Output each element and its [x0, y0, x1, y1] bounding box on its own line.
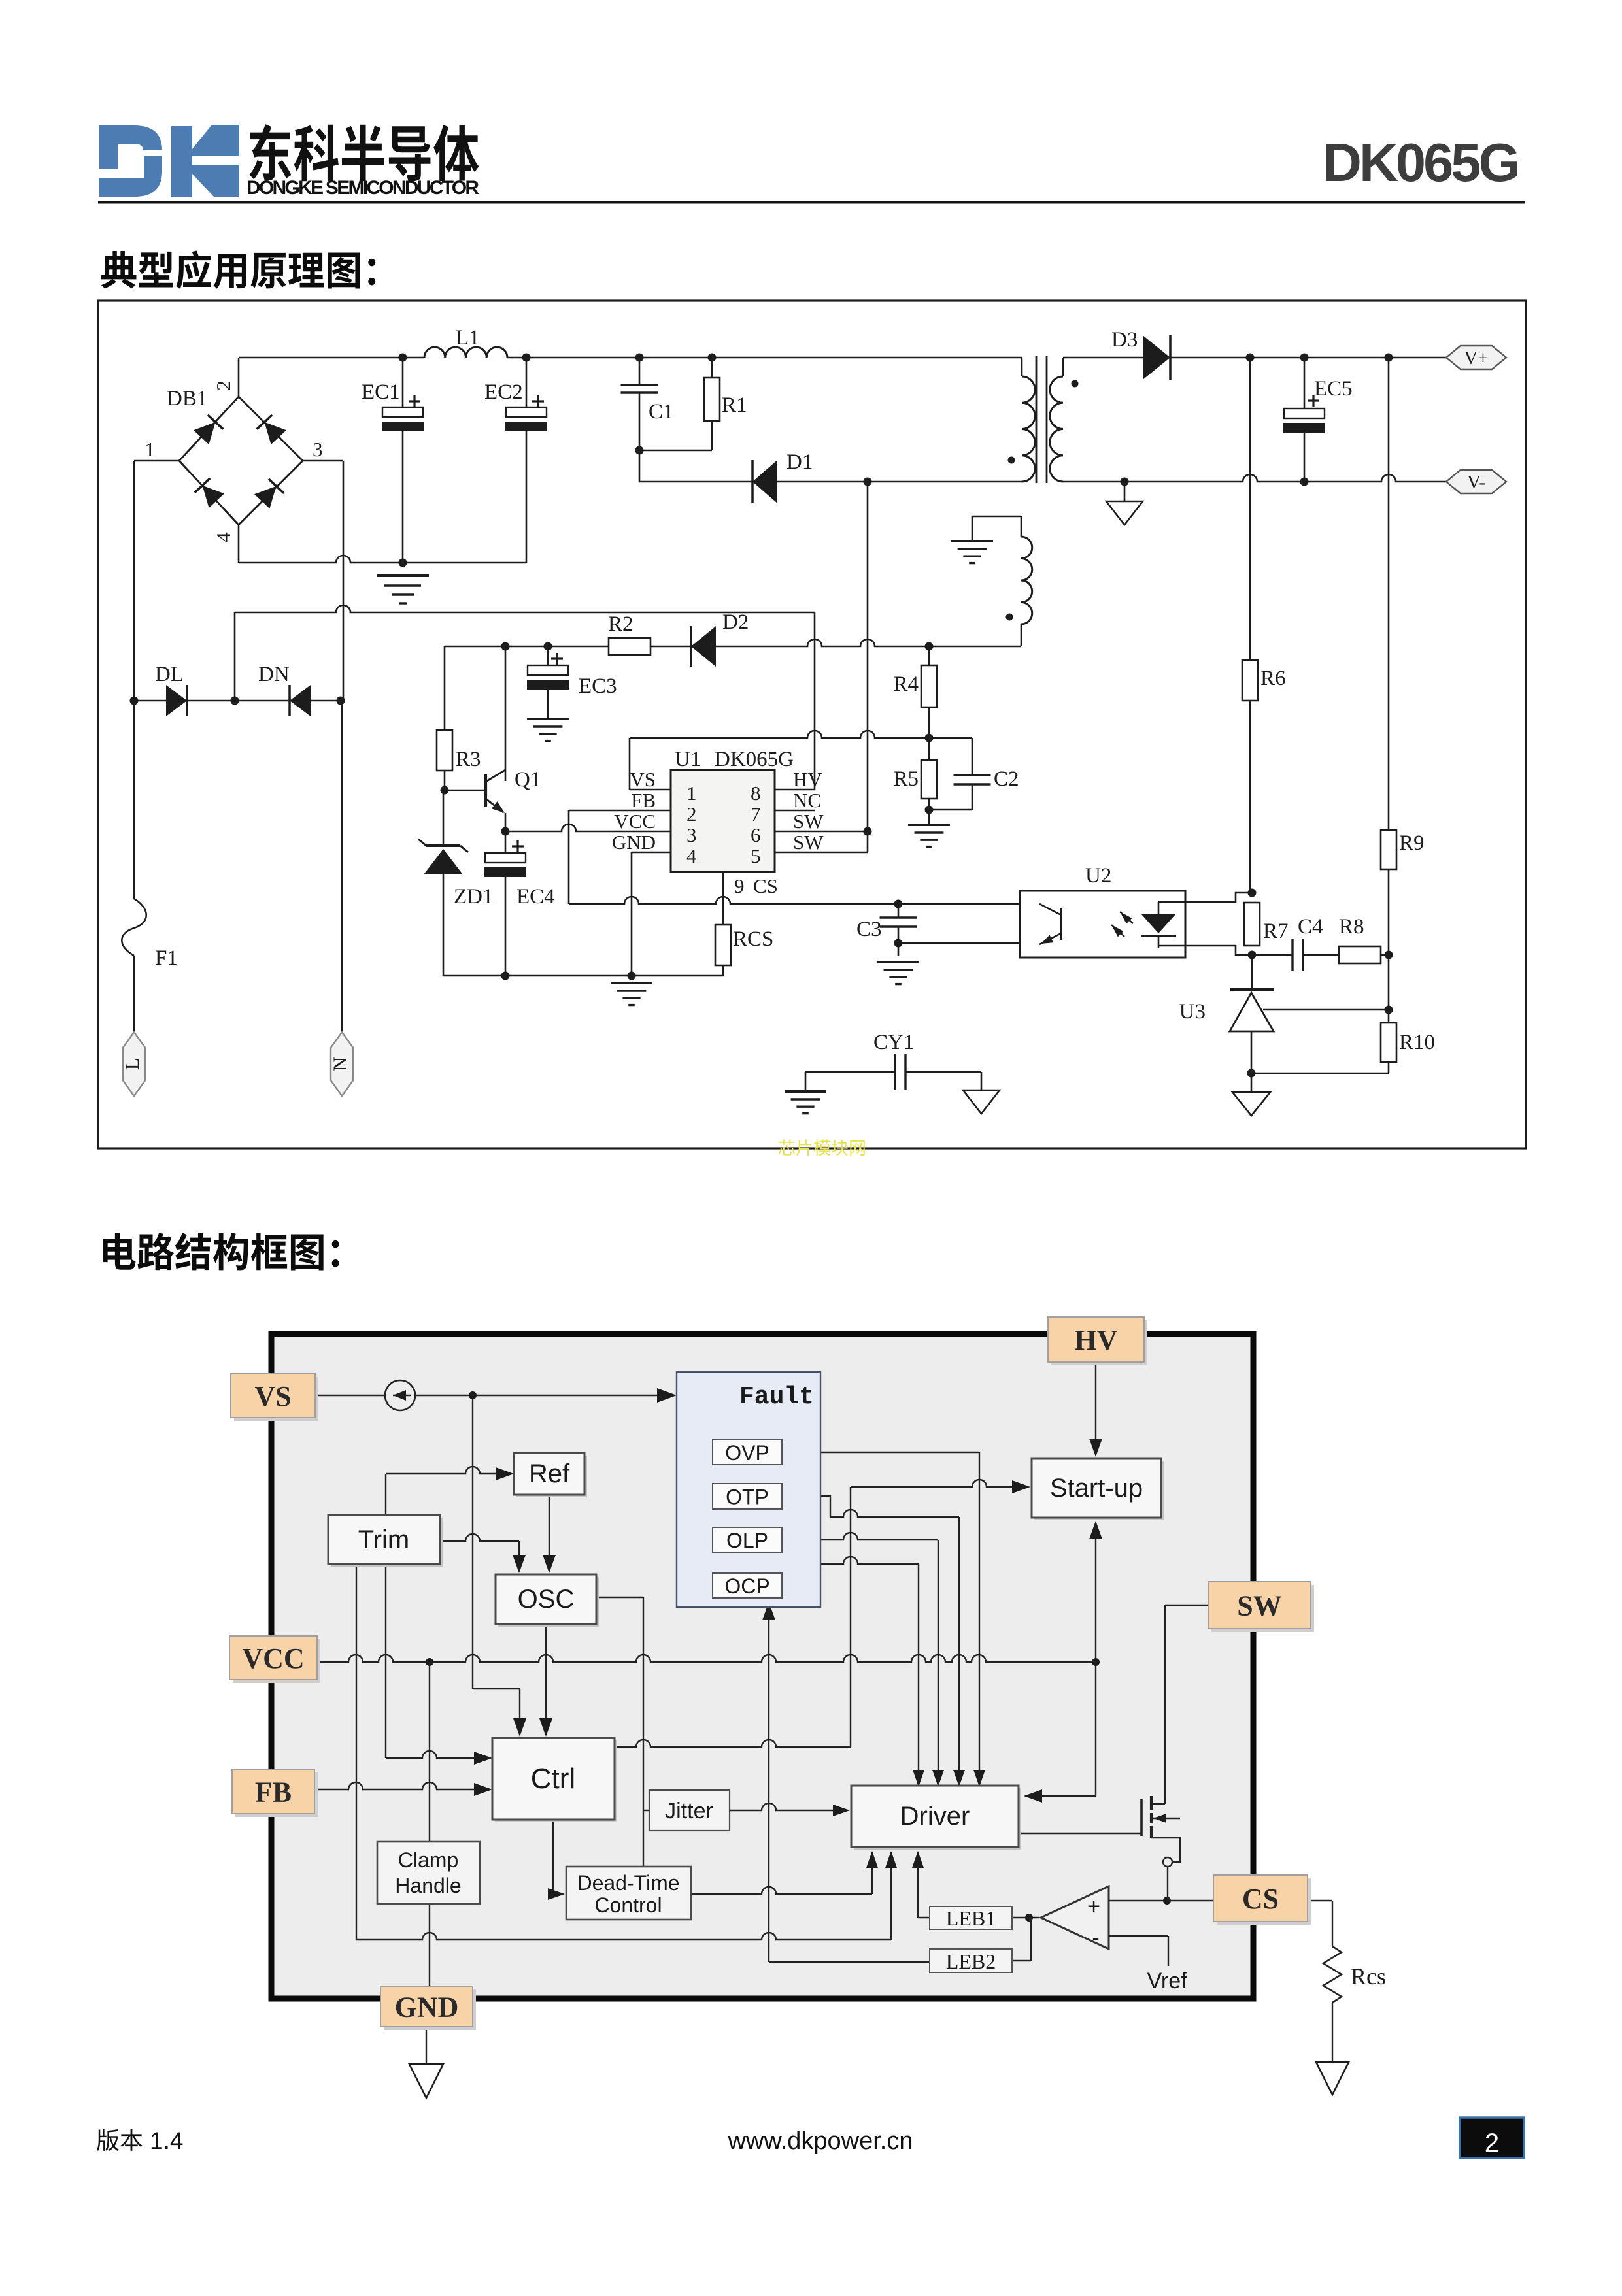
svg-text:GND: GND: [612, 831, 656, 854]
svg-text:R6: R6: [1260, 667, 1286, 690]
svg-text:ZD1: ZD1: [454, 885, 494, 908]
svg-text:Vref: Vref: [1147, 1969, 1187, 1993]
svg-text:-: -: [1092, 1925, 1099, 1950]
svg-text:Handle: Handle: [395, 1874, 461, 1897]
svg-text:R5: R5: [893, 767, 919, 791]
svg-text:OSC: OSC: [518, 1585, 575, 1614]
svg-text:6: 6: [751, 824, 761, 846]
svg-text:Ctrl: Ctrl: [531, 1763, 575, 1795]
svg-text:HV: HV: [1075, 1324, 1118, 1356]
svg-text:2: 2: [212, 380, 235, 391]
svg-text:R3: R3: [456, 748, 481, 771]
svg-text:R7: R7: [1263, 920, 1289, 943]
svg-text:L: L: [122, 1058, 143, 1070]
svg-text:OCP: OCP: [724, 1574, 769, 1598]
svg-text:EC1: EC1: [362, 380, 400, 404]
svg-text:LEB2: LEB2: [946, 1950, 996, 1973]
svg-text:8: 8: [751, 782, 761, 805]
svg-text:DN: DN: [258, 663, 290, 686]
svg-text:R4: R4: [893, 673, 919, 696]
svg-text:R1: R1: [722, 393, 747, 417]
svg-text:FB: FB: [631, 789, 656, 812]
svg-text:C3: C3: [856, 918, 882, 941]
svg-text:SW: SW: [1237, 1589, 1281, 1622]
svg-text:Rcs: Rcs: [1351, 1963, 1386, 1989]
svg-text:U2: U2: [1085, 864, 1111, 888]
svg-text:EC3: EC3: [579, 674, 617, 698]
svg-text:www.dkpower.cn: www.dkpower.cn: [727, 2127, 913, 2155]
svg-text:V-: V-: [1467, 472, 1485, 493]
svg-text:EC2: EC2: [484, 380, 523, 404]
svg-text:R9: R9: [1399, 831, 1425, 855]
svg-text:U1: U1: [675, 748, 701, 771]
svg-text:Dead-Time: Dead-Time: [577, 1871, 679, 1895]
svg-text:L1: L1: [456, 326, 480, 350]
svg-text:2: 2: [1485, 2129, 1499, 2157]
svg-text:Fault: Fault: [739, 1383, 814, 1411]
svg-text:D3: D3: [1111, 328, 1138, 352]
svg-text:4: 4: [212, 532, 235, 542]
svg-text:CS: CS: [753, 874, 778, 897]
svg-text:Start-up: Start-up: [1050, 1474, 1143, 1503]
svg-text:Q1: Q1: [515, 768, 541, 791]
svg-text:9: 9: [734, 874, 745, 897]
svg-text:VCC: VCC: [614, 810, 656, 833]
svg-text:RCS: RCS: [733, 927, 773, 951]
svg-text:D2: D2: [722, 610, 749, 634]
svg-text:SW: SW: [793, 810, 824, 833]
svg-text:VCC: VCC: [242, 1642, 304, 1674]
svg-text:OTP: OTP: [726, 1486, 769, 1509]
svg-text:VS: VS: [630, 768, 656, 791]
svg-text:C4: C4: [1298, 915, 1323, 939]
svg-text:C1: C1: [649, 400, 674, 424]
svg-text:5: 5: [751, 844, 761, 867]
svg-text:Driver: Driver: [900, 1802, 970, 1831]
svg-text:C2: C2: [994, 767, 1019, 791]
svg-text:CY1: CY1: [873, 1031, 914, 1054]
svg-text:VS: VS: [254, 1380, 291, 1412]
svg-text:V+: V+: [1464, 348, 1488, 369]
svg-text:1: 1: [686, 782, 697, 805]
svg-text:R2: R2: [608, 612, 634, 636]
svg-text:OLP: OLP: [726, 1529, 768, 1552]
svg-text:2: 2: [686, 803, 697, 825]
svg-text:HV: HV: [793, 768, 822, 791]
svg-text:F1: F1: [155, 946, 178, 970]
svg-text:+: +: [1087, 1894, 1100, 1919]
svg-text:7: 7: [751, 803, 761, 825]
svg-text:DONGKE SEMICONDUCTOR: DONGKE SEMICONDUCTOR: [246, 177, 479, 199]
svg-text:Ref: Ref: [529, 1459, 570, 1488]
svg-text:U3: U3: [1179, 1000, 1206, 1023]
svg-text:D1: D1: [786, 450, 813, 474]
svg-text:R10: R10: [1399, 1031, 1435, 1054]
svg-text:GND: GND: [395, 1991, 459, 2023]
svg-text:R8: R8: [1339, 915, 1364, 939]
svg-text:Jitter: Jitter: [665, 1799, 713, 1823]
svg-text:1: 1: [145, 438, 156, 461]
svg-text:3: 3: [686, 824, 697, 846]
svg-text:DK065G: DK065G: [1323, 132, 1521, 193]
svg-text:Control: Control: [594, 1893, 662, 1917]
svg-text:SW: SW: [793, 831, 824, 854]
svg-text:4: 4: [686, 844, 697, 867]
svg-text:DB1: DB1: [167, 387, 207, 410]
svg-text:CS: CS: [1242, 1883, 1279, 1915]
svg-text:LEB1: LEB1: [946, 1906, 996, 1930]
svg-text:3: 3: [313, 438, 323, 461]
svg-text:EC5: EC5: [1314, 377, 1353, 401]
svg-text:Clamp: Clamp: [398, 1848, 458, 1872]
svg-text:N: N: [329, 1057, 351, 1071]
svg-text:NC: NC: [793, 789, 821, 812]
svg-text:DK065G: DK065G: [715, 748, 794, 771]
svg-text:Trim: Trim: [358, 1525, 409, 1554]
svg-text:EC4: EC4: [516, 885, 555, 908]
svg-text:OVP: OVP: [725, 1441, 769, 1465]
svg-text:DL: DL: [155, 663, 184, 686]
svg-text:1.4: 1.4: [150, 2127, 183, 2154]
svg-text:FB: FB: [255, 1776, 292, 1808]
